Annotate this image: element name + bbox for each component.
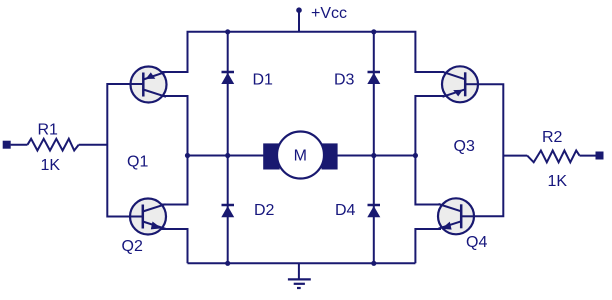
node dot left motor node	[185, 153, 190, 158]
svg-text:+Vcc: +Vcc	[311, 5, 347, 22]
wire Q1 emitter to top rail, top rail, Q3 top wire	[160, 32, 444, 72]
ground	[288, 263, 311, 288]
wire Q3 collector down to right motor node	[415, 96, 444, 156]
wire left base column (Q1 base to Q2 base)	[107, 84, 131, 217]
wire Q4 collector up to right motor node	[415, 156, 441, 205]
wire base column to R2	[503, 155, 527, 157]
svg-text:D2: D2	[254, 202, 275, 219]
svg-text:Q1: Q1	[127, 154, 148, 171]
svg-text:D3: D3	[334, 72, 355, 89]
svg-text:1K: 1K	[548, 173, 568, 190]
transistor Q2 (NPN)	[130, 199, 166, 235]
node dot motor row / D1 column	[225, 153, 230, 158]
svg-text:R2: R2	[542, 129, 563, 146]
svg-text:R1: R1	[38, 122, 59, 139]
resistor R1	[28, 139, 79, 151]
node dot bottom rail / D2 column	[225, 261, 230, 266]
terminal square left input	[3, 141, 11, 149]
terminal square right input	[596, 152, 604, 160]
wire R1 to base column	[79, 144, 108, 146]
node +Vcc dot	[296, 7, 302, 13]
node dot right motor node	[413, 153, 418, 158]
wire D3/D4 column	[373, 32, 375, 263]
node dot top rail / D1 column	[225, 29, 230, 34]
diode D4	[367, 205, 380, 217]
svg-text:Q4: Q4	[466, 234, 487, 251]
svg-text:Q3: Q3	[454, 138, 475, 155]
diode D2	[221, 205, 234, 217]
resistor R2	[527, 151, 579, 163]
wire motor row right	[337, 155, 415, 157]
transistor Q3 (PNP)	[442, 66, 478, 102]
wire bottom rail	[188, 262, 416, 264]
wire Q2 collector up to left motor node	[160, 156, 188, 205]
wire Q4 emitter down to bottom rail	[415, 229, 441, 263]
wire D1/D2 column	[227, 32, 229, 263]
transistor Q4 (NPN)	[438, 198, 474, 234]
wire Q1 collector down to left motor node	[160, 96, 188, 156]
svg-text:D4: D4	[335, 202, 356, 219]
svg-text:Q2: Q2	[122, 238, 143, 255]
wire motor row left	[188, 155, 265, 157]
node dot bottom rail / D4 column	[371, 261, 376, 266]
wire right base column (Q3 base to Q4 base)	[474, 84, 503, 216]
wire R2 to terminal	[580, 155, 596, 157]
svg-text:M: M	[294, 148, 307, 165]
motor M	[263, 132, 337, 179]
transistor Q1 (PNP)	[131, 67, 167, 103]
svg-text:D1: D1	[253, 72, 274, 89]
diode D3	[367, 72, 380, 84]
wire terminal to R1	[11, 144, 28, 146]
node dot top rail / D3 column	[371, 29, 376, 34]
wire +Vcc stub	[298, 11, 300, 32]
svg-text:1K: 1K	[41, 157, 61, 174]
wire Q2 emitter down to bottom rail	[160, 229, 188, 263]
diode D1	[221, 72, 234, 84]
node dot motor row / D3 column	[371, 153, 376, 158]
